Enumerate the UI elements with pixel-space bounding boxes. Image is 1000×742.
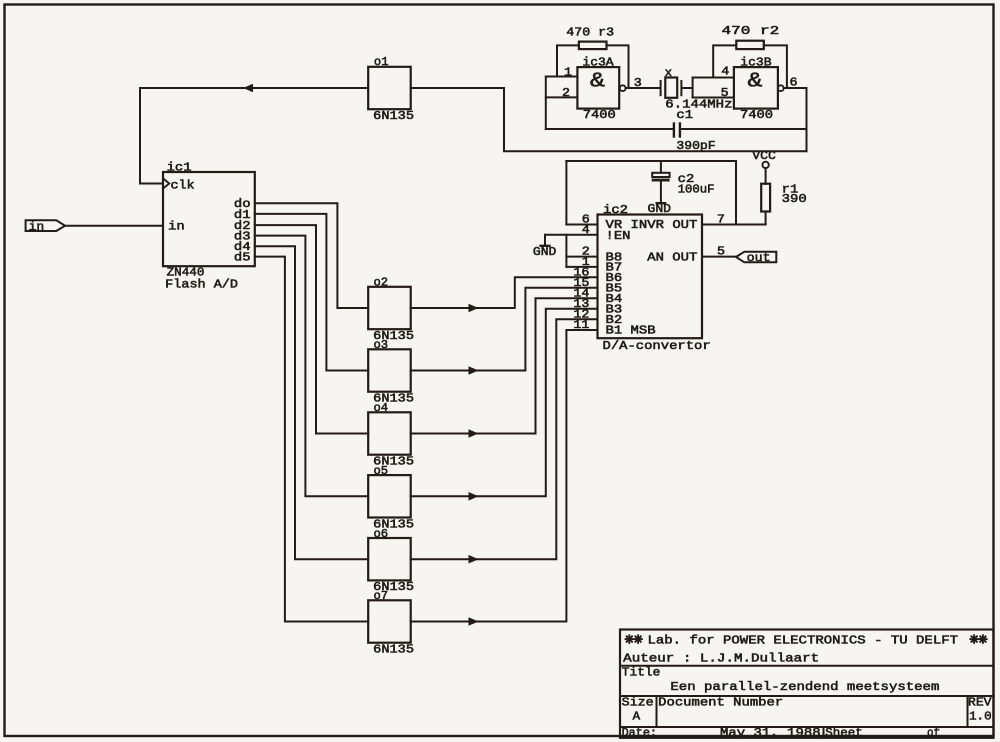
svg-text:1.0: 1.0 — [969, 710, 992, 724]
optocoupler o3 — [368, 349, 411, 391]
wire oscillator output to o1 — [411, 88, 807, 151]
wire o2 to B6 input — [411, 277, 598, 308]
svg-text:Size: Size — [622, 695, 654, 709]
svg-text:Lab. for POWER ELECTRONICS - T: Lab. for POWER ELECTRONICS - TU DELFT — [648, 633, 959, 647]
ic2 pin 5 stub (AN OUT) — [702, 256, 736, 258]
svg-text:!EN: !EN — [606, 229, 631, 243]
clk input wedge — [163, 178, 169, 188]
arrowhead on o5 output — [469, 492, 479, 501]
svg-text:Title: Title — [622, 666, 661, 680]
svg-text:o3: o3 — [374, 338, 389, 352]
wire o4 to B4 input — [411, 298, 598, 433]
svg-text:&: & — [748, 71, 763, 94]
optocoupler o6 — [368, 538, 411, 580]
svg-text:o6: o6 — [374, 527, 389, 541]
svg-text:470 r2: 470 r2 — [722, 24, 780, 38]
wire r2 left feedback — [713, 45, 736, 77]
D/A converter ic2 — [598, 215, 703, 339]
wire clk net vertical — [140, 88, 163, 184]
svg-text:&: & — [590, 71, 605, 94]
svg-text:o2: o2 — [374, 276, 389, 290]
svg-text:GND: GND — [533, 245, 557, 259]
svg-text:ic3B: ic3B — [740, 55, 771, 69]
wire r3 left feedback — [557, 45, 579, 76]
svg-text:100uF: 100uF — [678, 182, 715, 196]
svg-text:6N135: 6N135 — [373, 109, 414, 123]
wire VCC to r1 — [765, 168, 767, 184]
svg-text:GND: GND — [648, 202, 672, 216]
svg-text:o5: o5 — [374, 464, 389, 478]
crystal X1 6.144MHz — [660, 81, 662, 95]
svg-text:1: 1 — [564, 65, 572, 79]
arrowhead on o4 output — [469, 429, 479, 438]
optocoupler o5 — [368, 475, 411, 517]
connector out — [736, 252, 776, 263]
svg-text:out: out — [747, 251, 771, 265]
optocoupler o1 — [368, 67, 411, 109]
svg-text:Sheet: Sheet — [825, 726, 862, 740]
wire r1 to pin7 net — [765, 212, 767, 225]
svg-text:2: 2 — [562, 86, 570, 100]
ic3A pin 2 stub — [546, 96, 578, 98]
svg-text:7: 7 — [717, 213, 725, 227]
wire ic3B output to feedback node — [784, 87, 807, 89]
svg-text:D/A-convertor: D/A-convertor — [603, 339, 711, 353]
connector in — [26, 220, 65, 231]
svg-text:Document Number: Document Number — [658, 695, 783, 709]
svg-text:470 r3: 470 r3 — [566, 25, 614, 39]
svg-text:B1 MSB: B1 MSB — [606, 324, 656, 338]
ic3B output bubble — [778, 85, 784, 91]
ic3A pin 1 stub — [546, 76, 578, 78]
ground symbol at !EN — [544, 235, 546, 246]
title block banner — [626, 635, 634, 643]
ic3A output bubble — [620, 85, 626, 91]
wire o1 output to clk net — [140, 87, 368, 89]
wire ic3A input join down to c1 — [545, 77, 547, 130]
wire d1 to o3 — [255, 214, 368, 371]
svg-text:Date:: Date: — [622, 726, 657, 740]
arrowhead on o7 output — [469, 617, 479, 626]
wire c1 right to feedback node — [681, 128, 807, 130]
wire o5 to B3 input — [411, 309, 598, 497]
title block — [620, 630, 994, 738]
ic2 pin 4 wire to GND — [545, 234, 598, 236]
wire in to ic1 — [65, 225, 163, 227]
svg-text:ic2: ic2 — [603, 203, 628, 217]
svg-text:4: 4 — [582, 223, 590, 237]
ic2 pin 7 wire — [702, 224, 766, 226]
svg-text:5: 5 — [721, 86, 729, 100]
svg-text:ic3A: ic3A — [582, 55, 614, 69]
svg-text:7400: 7400 — [583, 108, 616, 122]
optocoupler o4 — [368, 412, 411, 454]
svg-text:d5: d5 — [234, 251, 251, 265]
wire o6 to B2 input — [411, 319, 598, 559]
wire c1 left to ic3A inputs — [546, 128, 673, 130]
A/D converter ic1 — [163, 172, 255, 266]
svg-text:AN OUT: AN OUT — [647, 251, 697, 265]
top loop wire (pin6 to pin7) — [566, 160, 736, 162]
svg-text:Auteur : L.J.M.Dullaart: Auteur : L.J.M.Dullaart — [623, 651, 819, 665]
wire d3 to o5 — [255, 236, 368, 497]
optocoupler o7 — [368, 600, 411, 642]
nand gate ic3B — [734, 67, 778, 109]
wire d2 to o4 — [255, 225, 368, 433]
wire o7 to B1 input — [411, 330, 598, 622]
wire tying B8 B7 to GND net — [565, 235, 567, 267]
svg-text:o1: o1 — [374, 55, 389, 69]
svg-text:Een parallel-zendend meetsyste: Een parallel-zendend meetsysteem — [670, 680, 939, 694]
wire r3 right feedback — [607, 45, 629, 88]
optocoupler o2 — [368, 287, 411, 329]
svg-text:Flash A/D: Flash A/D — [165, 278, 238, 292]
svg-text:7400: 7400 — [740, 108, 773, 122]
svg-text:of: of — [927, 726, 940, 740]
svg-text:c1: c1 — [676, 108, 693, 122]
arrowhead on clk net (left) — [243, 84, 253, 93]
wire ic3B input join — [692, 78, 694, 98]
svg-text:11: 11 — [573, 318, 589, 332]
svg-text:390: 390 — [782, 192, 807, 206]
svg-text:REV: REV — [968, 695, 992, 709]
wire d4 to o6 — [255, 246, 368, 559]
svg-text:A: A — [633, 709, 641, 723]
arrowhead on o3 output — [469, 366, 479, 375]
wire pin3 to crystal — [626, 87, 660, 89]
arrowhead on o2 output — [469, 304, 479, 313]
svg-text:May 31, 1988: May 31, 1988 — [720, 726, 821, 740]
wire d5 to o7 — [255, 257, 368, 622]
wire d0 to o2 — [255, 203, 368, 308]
wire pin6 up to top loop — [565, 161, 567, 225]
svg-text:5: 5 — [717, 245, 725, 259]
ic2 pin 1 stub — [566, 266, 597, 268]
capacitor c1 — [673, 124, 675, 137]
ic2 pin 2 stub — [566, 256, 597, 258]
svg-text:in: in — [168, 220, 185, 234]
svg-text:ic1: ic1 — [167, 160, 192, 174]
wire o3 to B5 input — [411, 288, 598, 371]
arrowhead on o6 output — [469, 555, 479, 564]
nand gate ic3A — [577, 67, 619, 109]
svg-text:6N135: 6N135 — [373, 643, 414, 657]
resistor r3 — [579, 42, 607, 50]
svg-text:4: 4 — [721, 65, 729, 79]
ic3B pin 4 stub — [693, 77, 734, 79]
wire r2 right feedback — [764, 45, 787, 88]
wire crystal to ic3B inputs — [682, 87, 692, 89]
ic3B pin 5 stub — [693, 97, 734, 99]
resistor r2 — [736, 41, 764, 49]
ground symbol at c2 — [657, 202, 665, 204]
ic2 pin 6 stub — [566, 224, 597, 226]
svg-text:o7: o7 — [374, 589, 389, 603]
svg-text:clk: clk — [171, 178, 195, 192]
svg-text:x: x — [665, 66, 673, 80]
capacitor c2 (polarized) — [660, 161, 662, 173]
svg-text:in: in — [29, 220, 45, 234]
svg-text:o4: o4 — [374, 401, 389, 415]
wire feedback vertical right — [806, 88, 808, 151]
resistor r1 — [761, 184, 770, 212]
